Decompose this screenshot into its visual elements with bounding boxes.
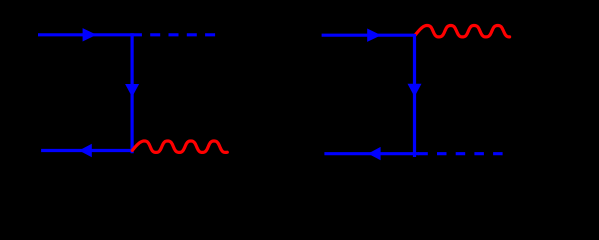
wire: wavy boson line top-right (red): [415, 26, 510, 37]
arrow on top-left fermion line (points right): [367, 29, 381, 42]
wire: incoming antifermion line bottom-left: [324, 152, 419, 155]
arrow on bottom-left fermion line (points left): [79, 144, 92, 157]
wire: wavy boson line bottom-right (red): [132, 141, 227, 152]
wire: internal fermion propagator (vertical): [413, 34, 416, 157]
wire: incoming antifermion line bottom-left: [41, 149, 132, 152]
arrow on bottom-left fermion line (points left): [368, 147, 381, 160]
wire: internal fermion propagator (vertical): [131, 33, 134, 153]
arrow on internal propagator (points down): [408, 84, 422, 97]
wire: incoming fermion line top-left: [38, 33, 132, 36]
arrow on internal propagator (points down): [125, 84, 139, 97]
wire: dashed scalar line top-right: [132, 33, 216, 36]
Feynman diagrams: two tree-level graphs (fermion line radiating a dashed scalar and a wavy boson): [0, 0, 599, 191]
arrow on top-left fermion line (points right): [83, 28, 97, 41]
wire: dashed scalar line bottom-right: [415, 152, 503, 155]
wire: incoming fermion line top-left: [322, 34, 416, 37]
